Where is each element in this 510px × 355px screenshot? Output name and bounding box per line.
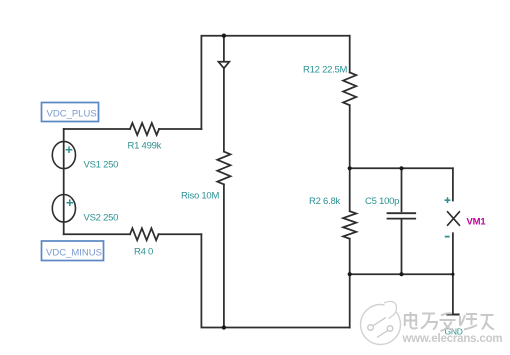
capacitor C5 (388, 213, 416, 218)
ground GND bar (447, 314, 458, 316)
svg-text:VS2 250: VS2 250 (84, 212, 119, 223)
node top junction (222, 34, 226, 38)
watermark chinese characters (404, 312, 494, 331)
wire riser to top bus (201, 36, 349, 129)
wire lower bus (350, 273, 453, 275)
wire R12 rail top (349, 36, 351, 73)
wire C5 bottom (401, 220, 403, 275)
resistor R2 (343, 211, 356, 239)
svg-text:C5 100p: C5 100p (365, 196, 399, 207)
VS1 plus sign (66, 146, 73, 153)
port VDC_MINUS box (42, 241, 104, 261)
port VDC_PLUS box (42, 103, 99, 122)
svg-text:Riso 10M: Riso 10M (181, 191, 219, 202)
resistor R12 (343, 72, 356, 105)
resistor Riso (217, 152, 230, 185)
wire Riso to bottom bus (223, 184, 225, 327)
VM1 plus sign (445, 197, 451, 203)
svg-text:VDC_MINUS: VDC_MINUS (46, 248, 102, 259)
voltage source VS1 (52, 141, 75, 168)
probe triangle (219, 62, 230, 69)
svg-text:www.elecrans.com: www.elecrans.com (402, 333, 503, 345)
node upper bus C5 (399, 166, 403, 170)
wire R1 row (64, 128, 130, 130)
wire riser to bottom bus (201, 234, 349, 327)
node bottom junction (222, 325, 226, 329)
wire R2 bottom (349, 239, 351, 275)
wire R4 to riser (159, 233, 202, 235)
wire C5 top (401, 168, 403, 211)
wire to GND (452, 274, 454, 314)
wire upper bus (350, 167, 453, 169)
wire VM1 top lead (452, 168, 454, 200)
voltage source VS2 (52, 195, 75, 223)
watermark logo circle (361, 301, 401, 344)
wire triangle to Riso (223, 68, 225, 151)
svg-text:R2 6.8k: R2 6.8k (309, 196, 340, 207)
wire R2 top (349, 168, 351, 211)
wire probe drop upper (223, 36, 225, 62)
VM1 minus sign (445, 236, 450, 238)
svg-text:VDC_PLUS: VDC_PLUS (47, 109, 97, 120)
node lower bus C5 (399, 272, 403, 276)
wire R4 row (64, 233, 130, 235)
resistor R1 (130, 123, 159, 135)
wire bottom riser to lower bus (349, 274, 351, 327)
resistor R4 (130, 228, 159, 240)
svg-text:R12 22.5M: R12 22.5M (303, 64, 348, 75)
wire VM1 bottom lead (452, 233, 454, 274)
node lower bus left (348, 272, 352, 276)
svg-text:VS1 250: VS1 250 (84, 159, 119, 170)
wire R12 to upper bus (349, 105, 351, 168)
wire R1 to riser (159, 128, 201, 130)
svg-text:VM1: VM1 (467, 217, 487, 228)
wire left rail VDC (63, 129, 65, 234)
node lower bus right (451, 273, 454, 276)
meter VM1 cross (448, 212, 460, 225)
VS2 plus sign (67, 199, 74, 206)
svg-text:R1 499k: R1 499k (128, 140, 162, 151)
node upper bus left (348, 166, 352, 170)
svg-text:R4 0: R4 0 (134, 247, 153, 258)
